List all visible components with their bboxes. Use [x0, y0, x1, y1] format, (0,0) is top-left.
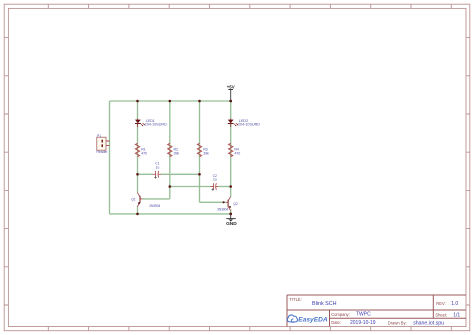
svg-text:204-10SURD: 204-10SURD [145, 123, 167, 127]
svg-text:2019-10-19: 2019-10-19 [350, 320, 376, 326]
svg-text:1.0: 1.0 [451, 301, 458, 307]
svg-text:Drawn By:: Drawn By: [388, 321, 407, 326]
svg-text:Q1: Q1 [131, 197, 136, 201]
svg-text:39k: 39k [174, 152, 180, 156]
svg-text:Q2: Q2 [233, 202, 238, 206]
svg-text:39k: 39k [203, 152, 209, 156]
svg-text:Header: Header [96, 150, 108, 154]
svg-text:shane.iot.spu: shane.iot.spu [413, 321, 444, 327]
svg-text:+5V: +5V [227, 84, 235, 89]
svg-text:2N3904: 2N3904 [149, 204, 160, 208]
svg-text:470: 470 [141, 152, 147, 156]
svg-text:Company:: Company: [331, 312, 350, 317]
svg-text:TITLE:: TITLE: [290, 297, 302, 302]
svg-text:REV:: REV: [436, 301, 445, 306]
svg-text:EasyEDA: EasyEDA [298, 317, 328, 324]
svg-text:2N3904: 2N3904 [217, 207, 228, 211]
svg-text:TWPC: TWPC [356, 312, 371, 318]
svg-text:470: 470 [234, 152, 240, 156]
svg-text:1u: 1u [213, 178, 217, 182]
svg-text:Blink SCH: Blink SCH [312, 301, 337, 307]
svg-text:Sheet:: Sheet: [435, 313, 447, 318]
svg-text:1u: 1u [156, 165, 160, 169]
svg-text:Date:: Date: [331, 320, 341, 325]
svg-text:204-10SURD: 204-10SURD [238, 123, 260, 127]
svg-text:GND: GND [226, 221, 237, 227]
svg-text:1/1: 1/1 [453, 313, 460, 319]
svg-text:P1: P1 [97, 134, 101, 138]
